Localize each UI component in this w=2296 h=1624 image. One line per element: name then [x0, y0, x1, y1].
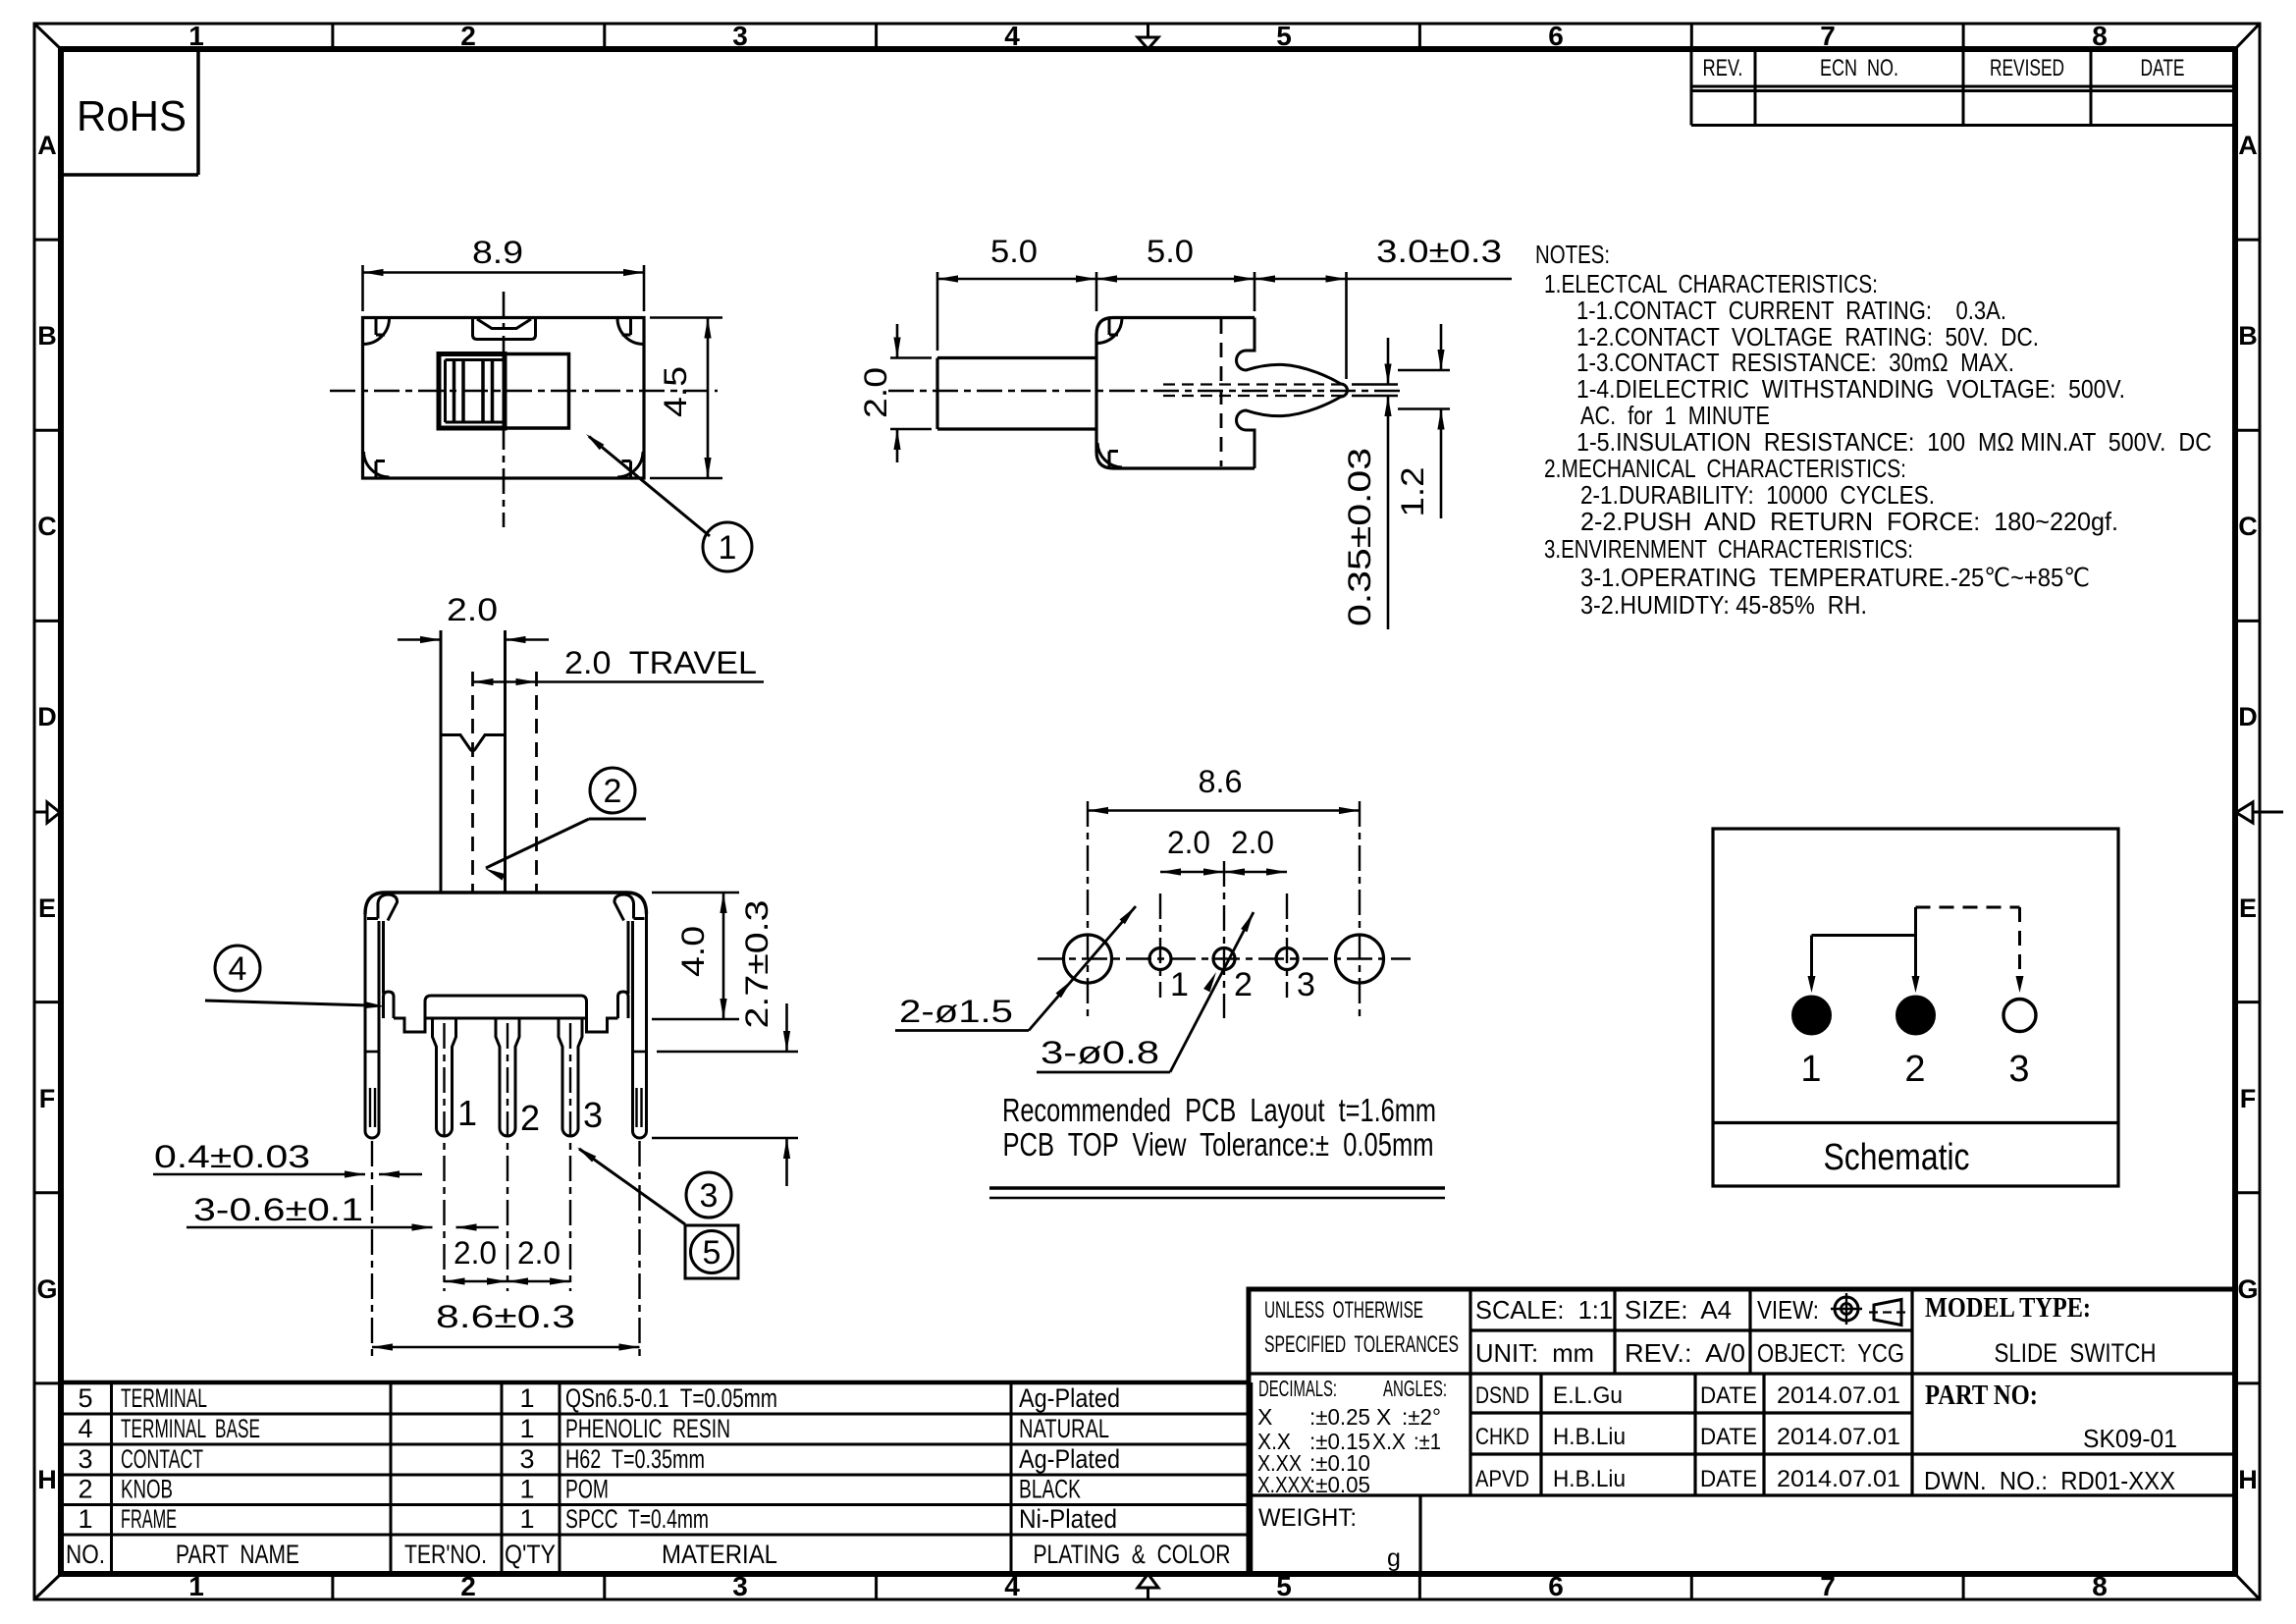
svg-text:7: 7 — [1820, 21, 1836, 51]
svg-text:4.5: 4.5 — [658, 366, 693, 417]
zone tick marks right edge — [2235, 239, 2260, 242]
dimension 0.35±0.03 extensions — [1352, 383, 1398, 386]
balloon 1 circle — [703, 522, 752, 571]
svg-text:1: 1 — [1170, 966, 1189, 1003]
svg-text:3: 3 — [583, 1095, 603, 1135]
svg-text:PART NAME: PART NAME — [176, 1540, 299, 1569]
schematic wire horizontal solid — [1812, 934, 1916, 937]
centering mark right — [2253, 811, 2283, 814]
svg-text:REV.: A/0: REV.: A/0 — [1625, 1338, 1745, 1368]
dimension 1.2 extensions — [1398, 369, 1450, 372]
svg-text:ANGLES:: ANGLES: — [1383, 1376, 1447, 1401]
svg-text:3: 3 — [2008, 1049, 2029, 1090]
dimension 4.5 extension lines — [650, 316, 722, 319]
svg-text:1-5.INSULATION RESISTANCE: 1: 1-5.INSULATION RESISTANCE: 100 MΩ MIN.AT… — [1576, 427, 2212, 457]
top view horizontal center line — [330, 390, 718, 393]
svg-text:6: 6 — [1548, 21, 1564, 51]
svg-text:3: 3 — [732, 21, 748, 51]
front view right ear arc — [627, 893, 647, 914]
schematic label separator line — [1713, 1121, 2118, 1124]
svg-text:2.MECHANICAL CHARACTERISTICS:: 2.MECHANICAL CHARACTERISTICS: — [1544, 454, 1906, 483]
view first angle target symbol — [1835, 1297, 1858, 1321]
svg-text:1: 1 — [519, 1383, 534, 1413]
svg-text:2.0: 2.0 — [447, 592, 498, 627]
svg-text:UNIT: mm: UNIT: mm — [1475, 1338, 1594, 1368]
side view corner dimple bottom-left — [1097, 443, 1122, 467]
zone tick marks bottom edge — [331, 1574, 334, 1599]
svg-text:2.0: 2.0 — [517, 1235, 561, 1271]
svg-text:1: 1 — [519, 1414, 534, 1443]
svg-text:ECN NO.: ECN NO. — [1820, 55, 1898, 81]
svg-text:2: 2 — [1234, 966, 1253, 1003]
svg-text:3: 3 — [1297, 966, 1315, 1003]
svg-text:g: g — [1387, 1544, 1401, 1572]
svg-text:DECIMALS:: DECIMALS: — [1258, 1376, 1337, 1401]
balloon 4 circle — [215, 946, 260, 991]
svg-text:5: 5 — [78, 1383, 92, 1413]
svg-text:3.0±0.3: 3.0±0.3 — [1376, 234, 1502, 269]
svg-text:H.B.Liu: H.B.Liu — [1553, 1424, 1626, 1450]
svg-text:PCB TOP View Tolerance:± 0: PCB TOP View Tolerance:± 0.05mm — [1003, 1126, 1434, 1163]
svg-text:2-2.PUSH AND RETURN FORCE:: 2-2.PUSH AND RETURN FORCE: 180~220gf. — [1580, 507, 2118, 536]
top view corner tab arc bottom-left — [364, 452, 390, 477]
RoHS label box — [196, 49, 200, 175]
schematic terminal 1 filled circle — [1793, 997, 1831, 1034]
svg-text:X: X — [1376, 1404, 1391, 1430]
svg-text:0.4±0.03: 0.4±0.03 — [154, 1139, 310, 1174]
svg-text:3-ø0.8: 3-ø0.8 — [1041, 1035, 1159, 1070]
svg-text:DSND: DSND — [1475, 1382, 1529, 1409]
centering mark left — [34, 811, 47, 814]
pcb dimension 2.0 2.0 line — [1160, 871, 1287, 874]
frame corner diagonal bottom-right — [2235, 1574, 2259, 1598]
svg-text:5.0: 5.0 — [1147, 234, 1194, 269]
svg-text:AC. for 1 MINUTE: AC. for 1 MINUTE — [1580, 401, 1770, 430]
front view cover side edges — [382, 921, 385, 994]
svg-text:SIZE: A4: SIZE: A4 — [1625, 1295, 1732, 1325]
svg-text:1.ELECTCAL CHARACTERISTICS:: 1.ELECTCAL CHARACTERISTICS: — [1544, 269, 1878, 298]
svg-text:NO.: NO. — [66, 1540, 105, 1569]
front view right flange stamp marks — [635, 1088, 637, 1127]
dimension 0.35±0.03 line — [1387, 338, 1390, 385]
front view left flange lines — [364, 912, 367, 1131]
parts table outline — [61, 1380, 1251, 1385]
front view leg center lines — [371, 1141, 373, 1360]
svg-text:X.XXX: X.XXX — [1257, 1472, 1312, 1497]
schematic box — [1713, 829, 2118, 1186]
svg-text:C: C — [2238, 512, 2258, 541]
title block vertical lines — [1468, 1289, 1471, 1495]
svg-text:Ag-Plated: Ag-Plated — [1019, 1444, 1120, 1474]
front view knob stem top with notch — [441, 735, 506, 751]
svg-text:2014.07.01: 2014.07.01 — [1777, 1424, 1900, 1450]
svg-text:CHKD: CHKD — [1475, 1424, 1529, 1450]
svg-text:8.6±0.3: 8.6±0.3 — [436, 1299, 575, 1334]
svg-text:FRAME: FRAME — [121, 1504, 177, 1534]
svg-text:2-ø1.5: 2-ø1.5 — [899, 994, 1013, 1029]
pcb layout hole vertical center lines — [1087, 801, 1089, 1018]
pcb leader 3-dia0.8 line — [1170, 912, 1254, 1072]
side view horizontal center line — [888, 390, 1404, 393]
svg-text:1: 1 — [519, 1504, 534, 1534]
svg-text:PART NO:: PART NO: — [1925, 1380, 2038, 1411]
frame corner diagonal top-left — [35, 25, 61, 49]
svg-text:3-0.6±0.1: 3-0.6±0.1 — [193, 1192, 363, 1227]
pcb dimension 8.6 line — [1088, 809, 1360, 812]
svg-text:REVISED: REVISED — [1990, 55, 2064, 81]
svg-text:2: 2 — [604, 773, 622, 810]
svg-text:G: G — [2237, 1274, 2258, 1304]
svg-text:3-2.HUMIDTY: 45-85% RH.: 3-2.HUMIDTY: 45-85% RH. — [1580, 590, 1867, 620]
side view body right edge and terminal pin — [1237, 318, 1348, 469]
side view body outline — [1096, 318, 1255, 469]
dimension 8.9 line — [363, 271, 645, 274]
svg-text:DWN. NO.: RD01-XXX: DWN. NO.: RD01-XXX — [1924, 1466, 2175, 1495]
svg-text:NATURAL: NATURAL — [1019, 1414, 1109, 1443]
svg-text:1: 1 — [188, 21, 204, 51]
front view terminal pin 2 — [496, 1018, 519, 1136]
svg-text:Ni-Plated: Ni-Plated — [1019, 1504, 1117, 1534]
front view left ear arc — [365, 893, 385, 914]
svg-text:0.35±0.03: 0.35±0.03 — [1342, 448, 1377, 626]
pcb layout terminal hole 3 — [1276, 948, 1298, 970]
svg-text:1: 1 — [188, 1571, 204, 1601]
view truncated cone symbol — [1874, 1300, 1901, 1326]
dimension 3.0±0.3 line — [1255, 278, 1512, 281]
pcb layout horizontal center line — [1038, 957, 1411, 960]
svg-text:X.X: X.X — [1372, 1429, 1406, 1454]
svg-text:H: H — [37, 1465, 57, 1494]
svg-text:2: 2 — [460, 21, 476, 51]
front view right flange lines — [645, 912, 648, 1131]
pcb layout caption underline double — [989, 1186, 1445, 1189]
svg-text:DATE: DATE — [1700, 1466, 1757, 1492]
svg-text:F: F — [39, 1084, 56, 1113]
svg-text:A: A — [37, 131, 57, 160]
front view right ear dimple — [614, 894, 645, 921]
dimension 2.7±0.3 line — [785, 1003, 788, 1052]
svg-text::±1: :±1 — [1414, 1429, 1441, 1454]
svg-text:APVD: APVD — [1475, 1466, 1529, 1492]
balloon 5 box — [685, 1225, 738, 1278]
svg-text:SK09-01: SK09-01 — [2083, 1424, 2177, 1453]
svg-text:RoHS: RoHS — [77, 92, 187, 140]
dimension 8.6±0.3 line — [372, 1346, 640, 1349]
svg-text:2: 2 — [1904, 1049, 1925, 1090]
dimension 8.9 extension lines — [361, 265, 364, 311]
svg-text:SPCC T=0.4mm: SPCC T=0.4mm — [565, 1504, 709, 1534]
svg-text:8: 8 — [2092, 21, 2108, 51]
svg-text:2.0: 2.0 — [858, 367, 893, 418]
dimension 5.0 second line — [1096, 278, 1255, 281]
svg-text:PHENOLIC RESIN: PHENOLIC RESIN — [565, 1414, 730, 1443]
frame corner diagonal top-right — [2235, 25, 2259, 49]
svg-text:2.0 TRAVEL: 2.0 TRAVEL — [564, 645, 757, 680]
dimension 3.0±0.3 extension at pin tip — [1345, 272, 1348, 379]
svg-text:KNOB: KNOB — [121, 1475, 173, 1504]
schematic terminal 2 filled circle — [1897, 997, 1935, 1034]
svg-text:1: 1 — [1800, 1049, 1821, 1090]
svg-text:PLATING & COLOR: PLATING & COLOR — [1034, 1540, 1231, 1569]
svg-text:SPECIFIED TOLERANCES: SPECIFIED TOLERANCES — [1264, 1331, 1459, 1358]
front view base outline with tabs and steps — [384, 992, 395, 1018]
svg-text::±2°: :±2° — [1402, 1404, 1441, 1430]
leader line for balloon 4 — [205, 1001, 370, 1005]
svg-text:B: B — [37, 321, 57, 351]
title block outline — [1249, 1289, 2235, 1574]
schematic terminal 3 open circle — [2003, 1000, 2036, 1032]
centering mark bottom — [1147, 1588, 1149, 1599]
top view knob body — [505, 354, 569, 429]
svg-text:WEIGHT:: WEIGHT: — [1258, 1504, 1357, 1532]
svg-text:1: 1 — [78, 1504, 92, 1534]
leader line for balloons 3 and 5 — [579, 1149, 685, 1224]
zone tick marks left edge — [34, 239, 61, 242]
svg-text:QSn6.5-0.1 T=0.05mm: QSn6.5-0.1 T=0.05mm — [565, 1383, 777, 1413]
leader line for balloon 2 — [486, 819, 589, 868]
front view terminal pin 3 — [559, 1018, 582, 1136]
svg-text:5.0: 5.0 — [990, 234, 1038, 269]
svg-text:DATE: DATE — [2141, 55, 2185, 81]
svg-text:B: B — [2238, 321, 2258, 351]
front view terminal pin 1 — [433, 1018, 456, 1136]
dimension 2.0 TRAVEL line — [473, 680, 765, 683]
svg-text:TERMINAL BASE: TERMINAL BASE — [121, 1414, 260, 1443]
svg-text:8.6: 8.6 — [1199, 764, 1243, 799]
svg-text:CONTACT: CONTACT — [121, 1444, 203, 1474]
svg-text:H.B.Liu: H.B.Liu — [1553, 1466, 1626, 1492]
dimension 2.7±0.3 extension lines — [657, 1051, 798, 1054]
top view corner tab arc bottom-right — [617, 452, 643, 477]
svg-text:D: D — [2238, 702, 2258, 731]
pcb leader 2-dia1.5 line — [1029, 906, 1136, 1031]
svg-text:1: 1 — [719, 529, 737, 567]
svg-text:E: E — [2239, 893, 2257, 923]
svg-text:REV.: REV. — [1703, 55, 1743, 81]
side view pin fold dashed lines — [1163, 383, 1346, 385]
svg-text:3-1.OPERATING TEMPERATURE.-25: 3-1.OPERATING TEMPERATURE.-25℃~+85℃ — [1580, 563, 2090, 592]
svg-text:4: 4 — [229, 950, 247, 988]
svg-text:1-1.CONTACT CURRENT RATING:: 1-1.CONTACT CURRENT RATING: 0.3A. — [1576, 296, 2006, 325]
svg-text:VIEW:: VIEW: — [1757, 1295, 1819, 1325]
svg-text:E.L.Gu: E.L.Gu — [1553, 1382, 1623, 1409]
svg-text:DATE: DATE — [1700, 1424, 1757, 1450]
svg-text:X: X — [1257, 1404, 1272, 1430]
dimension 2.0 shaft height extensions — [890, 356, 932, 359]
svg-text:F: F — [2240, 1084, 2257, 1113]
svg-text:4: 4 — [1004, 21, 1020, 51]
svg-text:2-1.DURABILITY: 10000 CYCLES: 2-1.DURABILITY: 10000 CYCLES. — [1580, 480, 1935, 510]
svg-text:MODEL TYPE:: MODEL TYPE: — [1925, 1293, 2091, 1324]
schematic wire dashed horizontal — [1916, 906, 2020, 909]
zone tick marks top edge — [331, 24, 334, 49]
svg-text:BLACK: BLACK — [1019, 1475, 1081, 1504]
svg-text:H62 T=0.35mm: H62 T=0.35mm — [565, 1444, 705, 1474]
svg-text:2: 2 — [520, 1098, 540, 1138]
schematic wire terminal2 vertical with arrow — [1914, 907, 1917, 978]
front view knob stem sides with extension lines — [440, 630, 443, 893]
centering mark top — [1147, 24, 1149, 37]
svg-text:1-4.DIELECTRIC WITHSTANDING: 1-4.DIELECTRIC WITHSTANDING VOLTAGE: 500… — [1576, 374, 2125, 404]
svg-text:Ag-Plated: Ag-Plated — [1019, 1383, 1120, 1413]
frame corner diagonal bottom-left — [35, 1574, 61, 1598]
svg-text:G: G — [36, 1274, 57, 1304]
top view frame body outline — [363, 318, 645, 479]
svg-text:3.ENVIRENMENT CHARACTERISTICS: 3.ENVIRENMENT CHARACTERISTICS: — [1544, 534, 1913, 564]
revision table — [1690, 49, 1693, 126]
front view left flange stamp marks — [369, 1088, 371, 1127]
svg-text:C: C — [37, 512, 57, 541]
svg-text:4.0: 4.0 — [675, 926, 711, 977]
svg-text::±0.25: :±0.25 — [1309, 1404, 1370, 1430]
svg-text:POM: POM — [565, 1475, 609, 1504]
svg-text:1-3.CONTACT RESISTANCE: 30mΩ: 1-3.CONTACT RESISTANCE: 30mΩ MAX. — [1576, 348, 2014, 377]
leader line for balloon 1 — [589, 437, 710, 537]
svg-text:1: 1 — [519, 1475, 534, 1504]
schematic wire terminal1 vertical with arrow — [1810, 936, 1813, 979]
svg-text:E: E — [38, 893, 56, 923]
svg-text:5: 5 — [1276, 21, 1292, 51]
front view knob travel position dashed — [471, 672, 474, 893]
front view base bottom edge — [425, 1017, 587, 1020]
pcb layout mounting hole right 1.5mm — [1336, 935, 1384, 983]
svg-text:1.2: 1.2 — [1395, 467, 1430, 517]
svg-text:UNLESS OTHERWISE: UNLESS OTHERWISE — [1264, 1297, 1423, 1324]
front view left ear dimple — [367, 894, 398, 921]
svg-text:Schematic: Schematic — [1824, 1137, 1970, 1178]
svg-text:DATE: DATE — [1700, 1382, 1757, 1409]
schematic wire terminal3 dashed vertical with arrow — [2018, 907, 2021, 978]
svg-text:1: 1 — [457, 1093, 477, 1133]
top view knob grip — [439, 354, 505, 429]
top view corner tab arc top-right — [617, 319, 643, 345]
svg-text:SLIDE SWITCH: SLIDE SWITCH — [1995, 1338, 2157, 1368]
svg-text:2: 2 — [78, 1475, 92, 1504]
top view vertical center line — [503, 292, 506, 527]
svg-text:2.0: 2.0 — [1167, 825, 1210, 860]
svg-text:D: D — [37, 702, 57, 731]
svg-text:Recommended PCB Layout t=1.: Recommended PCB Layout t=1.6mm — [1002, 1092, 1436, 1128]
svg-text:5: 5 — [703, 1234, 721, 1272]
svg-text::±0.05: :±0.05 — [1309, 1472, 1370, 1497]
pcb layout terminal hole 2 — [1213, 948, 1235, 970]
top view knob slot cutout — [471, 319, 474, 336]
svg-text:2014.07.01: 2014.07.01 — [1777, 1382, 1900, 1409]
svg-text:2.0: 2.0 — [1231, 825, 1274, 860]
svg-text:TER'NO.: TER'NO. — [404, 1540, 487, 1569]
balloon 3 circle — [686, 1172, 731, 1218]
balloon 2 circle — [590, 768, 635, 813]
front view pin center lines — [443, 1023, 445, 1291]
dimension 5.0 second extension — [1254, 272, 1256, 311]
top view corner tab arc top-left — [364, 319, 390, 345]
side view corner dimple top-left — [1097, 319, 1122, 344]
side view knob shaft — [937, 356, 1096, 359]
svg-text:2.0: 2.0 — [454, 1235, 497, 1271]
svg-text:OBJECT: YCG: OBJECT: YCG — [1757, 1338, 1904, 1368]
pcb layout mounting hole left 1.5mm — [1064, 935, 1112, 983]
svg-text:4: 4 — [1004, 1571, 1020, 1601]
svg-text:SCALE: 1:1: SCALE: 1:1 — [1475, 1295, 1613, 1325]
dimension 5.0 first line — [937, 278, 1096, 281]
dimension 2.0 stem width line — [398, 638, 441, 641]
parts table column lines — [110, 1382, 113, 1574]
title block horizontal lines — [1249, 1372, 2235, 1375]
svg-text:Q'TY: Q'TY — [505, 1540, 556, 1569]
top view knob grip ribs — [453, 360, 456, 423]
dimension 4.0 line — [722, 893, 725, 1019]
side view hidden line dashed — [1220, 319, 1223, 466]
svg-text:A: A — [2238, 131, 2258, 160]
svg-text:8.9: 8.9 — [472, 235, 523, 270]
dimension 1.2 line — [1440, 324, 1443, 370]
svg-text:3: 3 — [732, 1571, 748, 1601]
front view body top edge — [385, 891, 627, 893]
dimension 5.0 first extension — [936, 272, 939, 351]
svg-text:2014.07.01: 2014.07.01 — [1777, 1466, 1900, 1492]
parts table row lines — [61, 1413, 1251, 1416]
svg-text:3: 3 — [519, 1444, 534, 1474]
svg-text:2: 2 — [460, 1571, 476, 1601]
svg-text:3: 3 — [700, 1177, 719, 1215]
dimension 4.5 line — [707, 318, 710, 479]
svg-text:NOTES:: NOTES: — [1535, 240, 1610, 269]
balloon 5 circle — [691, 1231, 733, 1273]
pcb layout terminal hole 1 — [1149, 948, 1171, 970]
svg-text:3: 3 — [78, 1444, 92, 1474]
svg-text:H: H — [2238, 1465, 2258, 1494]
svg-text:MATERIAL: MATERIAL — [662, 1540, 777, 1569]
dimension 2.0 shaft height line — [896, 324, 899, 358]
svg-text:2.7±0.3: 2.7±0.3 — [739, 900, 774, 1029]
dimension 4.0 extension lines — [652, 892, 739, 894]
dimension 2.0 2.0 pin pitch line — [445, 1280, 571, 1283]
svg-text:4: 4 — [78, 1414, 92, 1443]
svg-text:TERMINAL: TERMINAL — [121, 1383, 207, 1413]
